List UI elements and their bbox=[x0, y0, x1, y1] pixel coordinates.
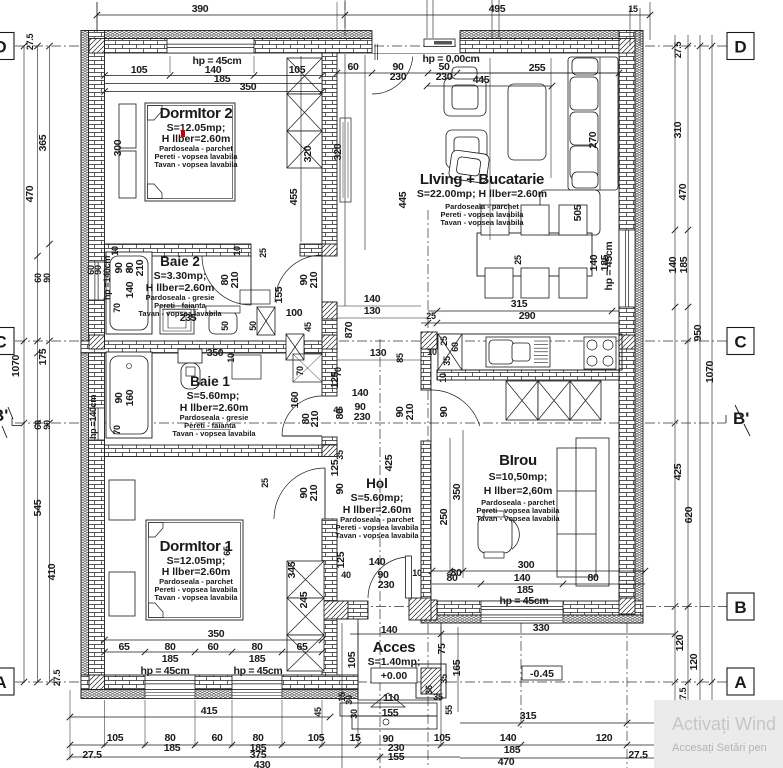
svg-text:35: 35 bbox=[439, 674, 449, 684]
svg-text:+0.00: +0.00 bbox=[381, 670, 408, 682]
svg-text:210: 210 bbox=[229, 271, 241, 288]
svg-text:1070: 1070 bbox=[10, 354, 22, 377]
svg-text:90: 90 bbox=[42, 273, 52, 283]
svg-text:75: 75 bbox=[436, 643, 448, 655]
svg-text:185: 185 bbox=[162, 653, 179, 665]
svg-text:25: 25 bbox=[258, 248, 268, 258]
svg-text:50: 50 bbox=[220, 321, 230, 331]
svg-text:Tavan - vopsea lavabila: Tavan - vopsea lavabila bbox=[476, 514, 560, 523]
svg-text:LIving + Bucatarie: LIving + Bucatarie bbox=[420, 171, 544, 188]
svg-text:90: 90 bbox=[42, 420, 52, 430]
svg-text:Activați Wind: Activați Wind bbox=[672, 714, 776, 734]
svg-text:Tavan - vopsea lavabila: Tavan - vopsea lavabila bbox=[440, 218, 524, 227]
svg-text:140: 140 bbox=[500, 732, 517, 744]
svg-text:45: 45 bbox=[313, 707, 323, 717]
svg-text:470: 470 bbox=[24, 185, 36, 202]
svg-text:350: 350 bbox=[240, 81, 257, 93]
svg-text:310: 310 bbox=[672, 121, 684, 138]
svg-text:85: 85 bbox=[395, 353, 405, 363]
svg-text:35: 35 bbox=[335, 450, 345, 460]
svg-text:S=10,50mp;: S=10,50mp; bbox=[489, 471, 548, 483]
svg-text:140: 140 bbox=[352, 387, 369, 399]
svg-text:60: 60 bbox=[347, 61, 359, 73]
svg-text:Baie 2: Baie 2 bbox=[160, 254, 200, 269]
svg-text:185: 185 bbox=[678, 256, 690, 273]
svg-text:300: 300 bbox=[112, 139, 124, 156]
svg-text:160: 160 bbox=[124, 389, 136, 406]
svg-text:80: 80 bbox=[450, 567, 462, 579]
svg-text:30: 30 bbox=[349, 709, 359, 719]
svg-text:25: 25 bbox=[260, 478, 270, 488]
svg-text:110: 110 bbox=[383, 692, 399, 704]
svg-text:90: 90 bbox=[438, 406, 450, 418]
svg-text:Baie 1: Baie 1 bbox=[190, 374, 230, 389]
svg-text:70: 70 bbox=[295, 366, 305, 376]
svg-text:470: 470 bbox=[498, 756, 515, 768]
svg-text:230: 230 bbox=[378, 579, 395, 591]
svg-text:105: 105 bbox=[434, 732, 451, 744]
svg-text:210: 210 bbox=[308, 271, 320, 288]
svg-text:210: 210 bbox=[309, 410, 321, 427]
svg-text:80: 80 bbox=[587, 572, 599, 584]
svg-text:210: 210 bbox=[308, 484, 320, 501]
svg-text:60: 60 bbox=[450, 342, 460, 352]
svg-text:425: 425 bbox=[383, 454, 395, 471]
svg-text:105: 105 bbox=[346, 651, 358, 668]
svg-text:10: 10 bbox=[427, 347, 437, 357]
svg-text:hp = 45cm: hp = 45cm bbox=[234, 665, 283, 677]
svg-text:H llber=2,60m: H llber=2,60m bbox=[484, 485, 553, 497]
svg-text:25: 25 bbox=[439, 336, 449, 346]
svg-text:60: 60 bbox=[211, 732, 223, 744]
svg-text:C: C bbox=[734, 333, 746, 352]
svg-text:D: D bbox=[734, 38, 746, 57]
svg-text:B': B' bbox=[733, 409, 749, 428]
svg-text:185: 185 bbox=[164, 742, 181, 754]
svg-text:65: 65 bbox=[118, 641, 130, 653]
svg-text:140: 140 bbox=[124, 281, 136, 298]
svg-text:350: 350 bbox=[208, 628, 225, 640]
svg-text:-0.45: -0.45 bbox=[530, 668, 554, 680]
svg-text:27.5: 27.5 bbox=[52, 670, 62, 687]
svg-text:505: 505 bbox=[572, 204, 584, 221]
svg-text:300: 300 bbox=[518, 559, 535, 571]
svg-text:620: 620 bbox=[683, 506, 695, 523]
svg-text:S=5.60mp;: S=5.60mp; bbox=[187, 390, 240, 402]
svg-text:hp = 45cm: hp = 45cm bbox=[500, 595, 549, 607]
svg-text:140: 140 bbox=[514, 572, 531, 584]
svg-text:10: 10 bbox=[412, 568, 422, 578]
svg-text:B: B bbox=[734, 598, 746, 617]
svg-text:185: 185 bbox=[249, 653, 266, 665]
svg-text:245: 245 bbox=[298, 591, 310, 608]
svg-text:Tavan - vopsea lavabila: Tavan - vopsea lavabila bbox=[172, 429, 256, 438]
svg-text:40: 40 bbox=[341, 570, 351, 580]
svg-text:425: 425 bbox=[672, 463, 684, 480]
svg-text:Accesați Setări pen: Accesați Setări pen bbox=[672, 742, 767, 754]
svg-text:hp =140cm: hp =140cm bbox=[102, 256, 112, 300]
svg-text:120: 120 bbox=[596, 732, 613, 744]
svg-text:50: 50 bbox=[248, 321, 258, 331]
svg-text:155: 155 bbox=[382, 707, 399, 719]
svg-text:140: 140 bbox=[364, 293, 381, 305]
svg-text:950: 950 bbox=[692, 324, 704, 341]
svg-text:125: 125 bbox=[329, 459, 341, 476]
svg-text:hp = 45cm: hp = 45cm bbox=[141, 665, 190, 677]
svg-text:105: 105 bbox=[308, 732, 325, 744]
svg-text:DormItor 2: DormItor 2 bbox=[160, 105, 233, 122]
svg-text:hp =140cm: hp =140cm bbox=[88, 395, 98, 439]
svg-text:125: 125 bbox=[329, 371, 341, 388]
svg-text:DormItor 1: DormItor 1 bbox=[160, 538, 233, 555]
svg-text:350: 350 bbox=[207, 347, 224, 359]
svg-text:290: 290 bbox=[519, 310, 536, 322]
svg-text:210: 210 bbox=[404, 403, 416, 420]
svg-text:27.5: 27.5 bbox=[628, 749, 648, 761]
svg-text:Tavan - vopsea lavabila: Tavan - vopsea lavabila bbox=[138, 309, 222, 318]
svg-text:15: 15 bbox=[349, 732, 361, 744]
svg-text:70: 70 bbox=[112, 425, 122, 435]
svg-text:185: 185 bbox=[504, 744, 521, 756]
svg-text:125: 125 bbox=[335, 551, 347, 568]
svg-text:90: 90 bbox=[93, 265, 103, 275]
svg-text:160: 160 bbox=[289, 391, 301, 408]
svg-text:350: 350 bbox=[451, 483, 463, 500]
svg-text:410: 410 bbox=[46, 563, 58, 580]
svg-text:65: 65 bbox=[296, 641, 308, 653]
svg-text:40: 40 bbox=[333, 405, 343, 415]
svg-text:155: 155 bbox=[273, 286, 285, 303]
svg-text:390: 390 bbox=[192, 3, 209, 15]
svg-text:27.5: 27.5 bbox=[82, 749, 102, 761]
svg-text:25: 25 bbox=[426, 311, 436, 321]
svg-text:250: 250 bbox=[438, 508, 450, 525]
svg-text:10: 10 bbox=[438, 373, 448, 383]
svg-text:80: 80 bbox=[251, 641, 263, 653]
svg-text:100: 100 bbox=[286, 307, 303, 319]
svg-text:S=3.30mp;: S=3.30mp; bbox=[154, 270, 207, 282]
svg-text:B': B' bbox=[0, 406, 8, 425]
svg-text:105: 105 bbox=[289, 64, 306, 76]
svg-text:1070: 1070 bbox=[704, 360, 716, 383]
svg-text:S=1.40mp;: S=1.40mp; bbox=[368, 656, 421, 668]
svg-text:330: 330 bbox=[533, 622, 550, 634]
svg-text:C: C bbox=[0, 333, 7, 352]
svg-text:25: 25 bbox=[513, 255, 523, 265]
svg-text:320: 320 bbox=[302, 145, 314, 162]
svg-text:315: 315 bbox=[520, 710, 537, 722]
svg-text:D: D bbox=[0, 38, 7, 57]
svg-text:415: 415 bbox=[201, 705, 218, 717]
svg-text:230: 230 bbox=[354, 411, 371, 423]
svg-text:27.5: 27.5 bbox=[673, 42, 683, 59]
svg-text:70: 70 bbox=[112, 303, 122, 313]
svg-text:165: 165 bbox=[451, 659, 463, 676]
svg-text:55: 55 bbox=[444, 705, 454, 715]
svg-text:185: 185 bbox=[599, 254, 611, 271]
svg-text:545: 545 bbox=[32, 499, 44, 516]
svg-text:Tavan - vopsea lavabila: Tavan - vopsea lavabila bbox=[154, 160, 238, 169]
svg-text:140: 140 bbox=[369, 556, 386, 568]
svg-text:30: 30 bbox=[344, 695, 354, 705]
svg-text:S=22.00mp; H llber=2.60m: S=22.00mp; H llber=2.60m bbox=[417, 188, 547, 200]
svg-text:365: 365 bbox=[37, 134, 49, 151]
svg-text:10: 10 bbox=[232, 246, 242, 256]
svg-text:445: 445 bbox=[397, 191, 409, 208]
svg-text:430: 430 bbox=[254, 759, 271, 768]
svg-text:60: 60 bbox=[207, 641, 219, 653]
svg-text:hp = 0,00cm: hp = 0,00cm bbox=[422, 53, 479, 65]
svg-text:120: 120 bbox=[674, 634, 686, 651]
svg-text:455: 455 bbox=[288, 188, 300, 205]
svg-text:870: 870 bbox=[343, 321, 355, 338]
svg-text:320: 320 bbox=[332, 143, 344, 160]
svg-text:445: 445 bbox=[473, 74, 490, 86]
svg-text:Tavan - vopsea lavabila: Tavan - vopsea lavabila bbox=[154, 593, 238, 602]
svg-text:120: 120 bbox=[688, 653, 700, 670]
svg-text:210: 210 bbox=[134, 259, 146, 276]
svg-text:130: 130 bbox=[364, 305, 381, 317]
svg-text:90: 90 bbox=[334, 483, 346, 495]
svg-text:35: 35 bbox=[433, 692, 443, 702]
svg-text:27.5: 27.5 bbox=[25, 34, 35, 51]
svg-text:S=5.60mp;: S=5.60mp; bbox=[351, 492, 404, 504]
svg-text:470: 470 bbox=[677, 183, 689, 200]
svg-text:Hol: Hol bbox=[366, 476, 388, 491]
svg-text:345: 345 bbox=[286, 561, 298, 578]
svg-text:315: 315 bbox=[511, 298, 528, 310]
svg-text:105: 105 bbox=[131, 64, 148, 76]
svg-text:90: 90 bbox=[113, 262, 125, 274]
svg-text:155: 155 bbox=[388, 751, 405, 763]
svg-text:255: 255 bbox=[529, 62, 546, 74]
svg-text:130: 130 bbox=[370, 347, 387, 359]
svg-text:80: 80 bbox=[164, 641, 176, 653]
svg-text:175: 175 bbox=[37, 348, 49, 365]
svg-text:Acces: Acces bbox=[373, 639, 416, 656]
svg-text:270: 270 bbox=[587, 131, 599, 148]
svg-text:230: 230 bbox=[390, 71, 407, 83]
svg-text:45: 45 bbox=[303, 322, 313, 332]
svg-text:A: A bbox=[734, 673, 746, 692]
svg-text:10: 10 bbox=[226, 353, 236, 363]
svg-text:35: 35 bbox=[442, 356, 452, 366]
svg-text:A: A bbox=[0, 673, 7, 692]
svg-text:105: 105 bbox=[107, 732, 124, 744]
svg-text:10: 10 bbox=[110, 246, 120, 256]
svg-text:495: 495 bbox=[489, 3, 506, 15]
svg-text:185: 185 bbox=[214, 73, 231, 85]
svg-text:Tavan - vopsea lavabila: Tavan - vopsea lavabila bbox=[335, 531, 419, 540]
svg-text:BIrou: BIrou bbox=[499, 452, 537, 469]
